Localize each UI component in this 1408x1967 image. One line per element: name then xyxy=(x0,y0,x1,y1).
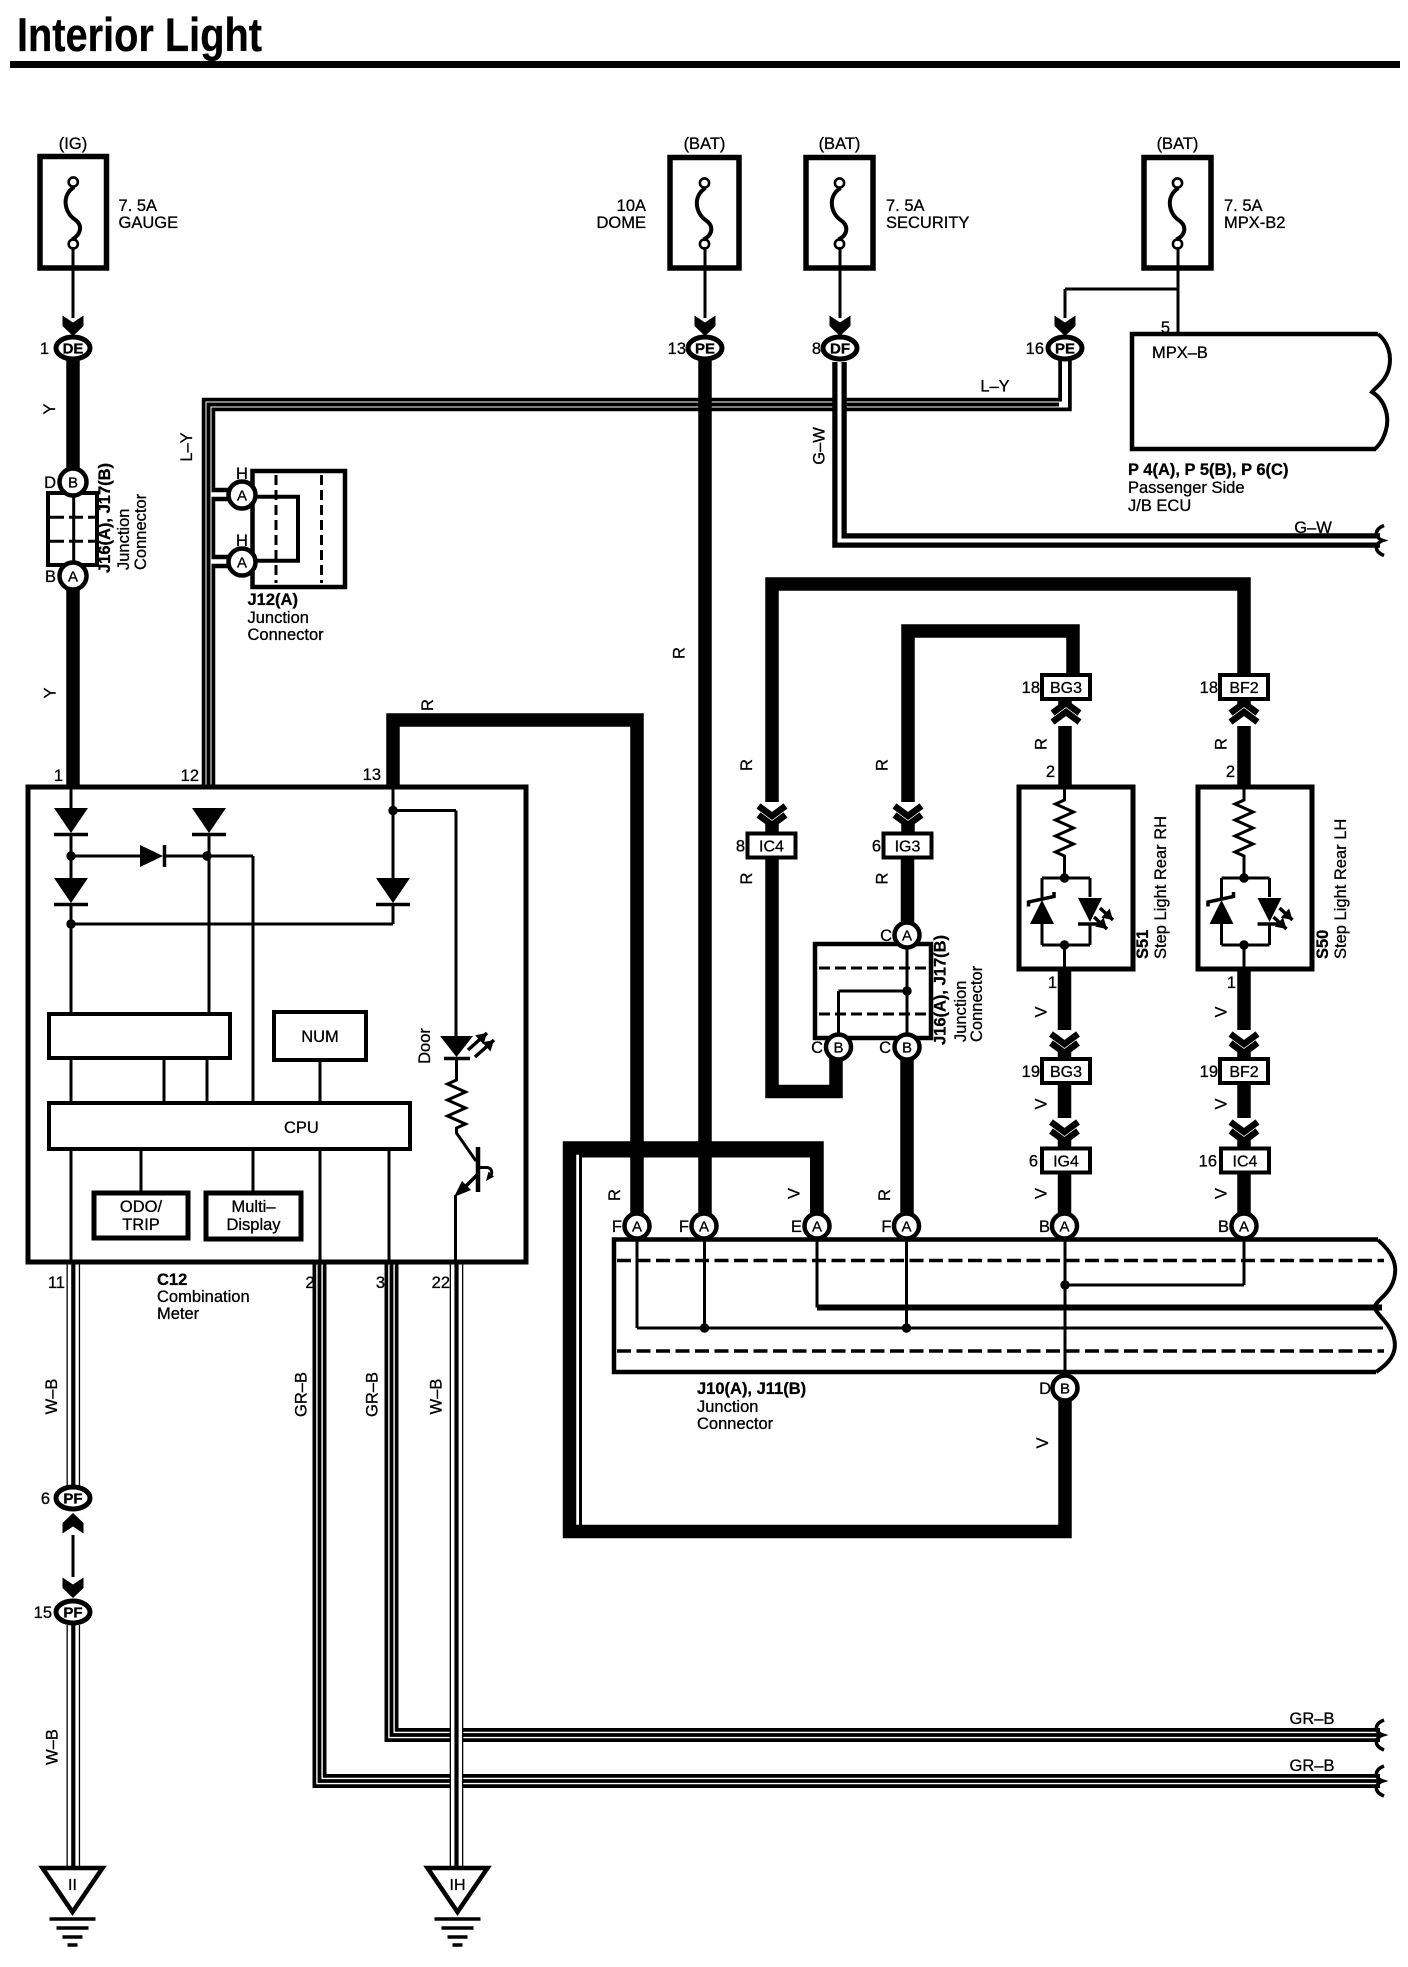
svg-text:B: B xyxy=(45,568,56,586)
svg-text:Passenger Side: Passenger Side xyxy=(1128,479,1245,497)
svg-text:Junction: Junction xyxy=(115,509,133,570)
svg-text:J10(A), J11(B): J10(A), J11(B) xyxy=(697,1380,806,1398)
svg-text:R: R xyxy=(738,872,756,884)
svg-text:1: 1 xyxy=(40,340,49,358)
svg-text:GR–B: GR–B xyxy=(293,1372,311,1417)
svg-text:2: 2 xyxy=(1226,763,1235,781)
svg-text:Y: Y xyxy=(42,687,60,698)
svg-text:Door: Door xyxy=(416,1028,434,1064)
svg-text:(BAT): (BAT) xyxy=(1157,135,1199,153)
svg-text:H: H xyxy=(236,532,248,550)
svg-text:ODO/: ODO/ xyxy=(120,1198,163,1216)
svg-text:(IG): (IG) xyxy=(59,135,87,153)
svg-text:R: R xyxy=(671,647,689,659)
svg-text:P 4(A), P 5(B), P 6(C): P 4(A), P 5(B), P 6(C) xyxy=(1128,461,1288,479)
svg-text:BG3: BG3 xyxy=(1050,680,1082,697)
svg-text:Multi–: Multi– xyxy=(231,1198,276,1216)
svg-text:R: R xyxy=(874,872,892,884)
svg-text:B: B xyxy=(902,1040,912,1057)
svg-text:PF: PF xyxy=(63,1491,82,1508)
svg-text:D: D xyxy=(1039,1380,1051,1398)
svg-text:J16(A), J17(B): J16(A), J17(B) xyxy=(96,463,114,573)
svg-text:2: 2 xyxy=(305,1274,314,1292)
svg-text:IG3: IG3 xyxy=(895,839,921,856)
svg-text:18: 18 xyxy=(1022,679,1040,697)
svg-text:MPX–B: MPX–B xyxy=(1152,344,1208,362)
svg-text:V: V xyxy=(1033,1098,1051,1109)
svg-text:Step Light Rear LH: Step Light Rear LH xyxy=(1332,819,1350,959)
svg-text:(BAT): (BAT) xyxy=(684,135,726,153)
svg-text:W–B: W–B xyxy=(43,1379,61,1415)
svg-text:19: 19 xyxy=(1200,1063,1218,1081)
svg-text:A: A xyxy=(1239,1219,1249,1236)
svg-text:IG4: IG4 xyxy=(1053,1154,1079,1171)
svg-text:Junction: Junction xyxy=(248,609,309,627)
svg-text:V: V xyxy=(786,1188,804,1199)
svg-text:S51: S51 xyxy=(1134,930,1152,959)
svg-text:A: A xyxy=(237,488,247,505)
svg-text:B: B xyxy=(1060,1381,1070,1398)
svg-text:A: A xyxy=(68,569,78,586)
svg-text:R: R xyxy=(738,759,756,771)
svg-text:1: 1 xyxy=(1227,974,1236,992)
svg-text:BF2: BF2 xyxy=(1229,680,1258,697)
svg-text:8: 8 xyxy=(736,838,745,856)
svg-text:B: B xyxy=(1218,1218,1229,1236)
svg-text:13: 13 xyxy=(363,766,381,784)
svg-text:6: 6 xyxy=(1029,1153,1038,1171)
svg-text:Connector: Connector xyxy=(697,1415,774,1433)
svg-text:B: B xyxy=(1039,1218,1050,1236)
svg-text:BG3: BG3 xyxy=(1050,1064,1082,1081)
svg-text:7. 5A: 7. 5A xyxy=(886,197,925,215)
svg-text:J16(A), J17(B): J16(A), J17(B) xyxy=(932,935,950,1045)
svg-text:V: V xyxy=(1033,1188,1051,1199)
svg-text:Meter: Meter xyxy=(157,1305,200,1323)
svg-text:R: R xyxy=(1033,738,1051,750)
svg-text:F: F xyxy=(679,1218,689,1236)
svg-text:A: A xyxy=(699,1219,709,1236)
svg-text:BF2: BF2 xyxy=(1229,1064,1258,1081)
svg-text:7. 5A: 7. 5A xyxy=(119,197,158,215)
svg-text:L–Y: L–Y xyxy=(178,432,196,461)
svg-text:G–W: G–W xyxy=(811,427,829,465)
svg-text:B: B xyxy=(68,475,78,492)
svg-text:PE: PE xyxy=(1055,341,1075,358)
svg-text:MPX-B2: MPX-B2 xyxy=(1224,214,1285,232)
svg-text:R: R xyxy=(419,699,437,711)
svg-text:22: 22 xyxy=(432,1274,450,1292)
svg-text:1: 1 xyxy=(1048,974,1057,992)
svg-text:NUM: NUM xyxy=(301,1028,339,1046)
svg-text:A: A xyxy=(812,1219,822,1236)
svg-text:W–B: W–B xyxy=(44,1729,62,1765)
svg-text:PE: PE xyxy=(695,341,715,358)
svg-text:18: 18 xyxy=(1200,679,1218,697)
svg-text:11: 11 xyxy=(48,1274,65,1292)
svg-text:DF: DF xyxy=(830,341,850,358)
svg-text:IC4: IC4 xyxy=(759,839,784,856)
svg-text:Connector: Connector xyxy=(248,626,325,644)
svg-text:6: 6 xyxy=(872,838,881,856)
svg-text:IH: IH xyxy=(450,1877,466,1894)
svg-text:V: V xyxy=(1034,1437,1052,1448)
svg-text:A: A xyxy=(902,928,912,945)
svg-text:V: V xyxy=(1213,1188,1231,1199)
svg-text:A: A xyxy=(237,555,247,572)
svg-text:7. 5A: 7. 5A xyxy=(1224,197,1263,215)
svg-text:6: 6 xyxy=(41,1490,50,1508)
svg-text:L–Y: L–Y xyxy=(980,378,1009,396)
svg-text:12: 12 xyxy=(181,767,199,785)
svg-text:Combination: Combination xyxy=(157,1288,250,1306)
svg-text:Interior Light: Interior Light xyxy=(17,8,262,61)
svg-text:Junction: Junction xyxy=(697,1398,758,1416)
svg-text:C: C xyxy=(879,1039,891,1057)
svg-text:Display: Display xyxy=(226,1216,281,1234)
svg-text:13: 13 xyxy=(668,340,686,358)
svg-text:J/B ECU: J/B ECU xyxy=(1128,497,1191,515)
svg-text:2: 2 xyxy=(1046,763,1055,781)
svg-text:R: R xyxy=(606,1189,624,1201)
svg-text:W–B: W–B xyxy=(428,1379,446,1415)
svg-text:II: II xyxy=(68,1877,77,1894)
svg-text:A: A xyxy=(632,1219,642,1236)
svg-text:V: V xyxy=(1213,1098,1231,1109)
svg-text:15: 15 xyxy=(34,1604,52,1622)
svg-text:A: A xyxy=(901,1219,911,1236)
svg-text:H: H xyxy=(236,465,248,483)
svg-text:S50: S50 xyxy=(1314,930,1332,959)
svg-text:G–W: G–W xyxy=(1294,519,1332,537)
svg-text:Connector: Connector xyxy=(132,493,150,570)
svg-text:(BAT): (BAT) xyxy=(819,135,861,153)
svg-text:C12: C12 xyxy=(157,1271,187,1289)
svg-text:A: A xyxy=(1059,1219,1069,1236)
svg-text:R: R xyxy=(874,759,892,771)
svg-text:TRIP: TRIP xyxy=(122,1216,160,1234)
svg-text:DOME: DOME xyxy=(597,214,647,232)
svg-text:SECURITY: SECURITY xyxy=(886,214,969,232)
svg-text:E: E xyxy=(791,1218,802,1236)
svg-text:Connector: Connector xyxy=(968,965,986,1042)
svg-text:GR–B: GR–B xyxy=(364,1372,382,1417)
svg-text:C: C xyxy=(811,1039,823,1057)
svg-text:GR–B: GR–B xyxy=(1290,1710,1335,1728)
svg-text:J12(A): J12(A) xyxy=(248,591,298,609)
svg-text:16: 16 xyxy=(1026,340,1044,358)
svg-text:V: V xyxy=(1213,1006,1231,1017)
svg-text:B: B xyxy=(833,1040,843,1057)
svg-text:V: V xyxy=(1033,1006,1051,1017)
svg-text:8: 8 xyxy=(812,340,821,358)
svg-text:Step Light Rear RH: Step Light Rear RH xyxy=(1152,816,1170,959)
svg-text:F: F xyxy=(881,1218,891,1236)
svg-text:DE: DE xyxy=(63,341,84,358)
svg-text:10A: 10A xyxy=(617,197,646,215)
svg-text:Y: Y xyxy=(41,403,59,414)
svg-text:D: D xyxy=(44,474,56,492)
svg-text:IC4: IC4 xyxy=(1233,1154,1258,1171)
svg-text:19: 19 xyxy=(1022,1063,1040,1081)
svg-text:PF: PF xyxy=(63,1605,82,1622)
svg-text:GR–B: GR–B xyxy=(1290,1757,1335,1775)
svg-text:3: 3 xyxy=(376,1274,385,1292)
svg-text:C: C xyxy=(880,927,892,945)
svg-text:CPU: CPU xyxy=(284,1119,319,1137)
svg-text:GAUGE: GAUGE xyxy=(119,214,179,232)
svg-text:16: 16 xyxy=(1199,1153,1217,1171)
svg-text:R: R xyxy=(1213,738,1231,750)
svg-text:R: R xyxy=(876,1189,894,1201)
svg-text:F: F xyxy=(612,1218,622,1236)
svg-text:1: 1 xyxy=(54,767,63,785)
